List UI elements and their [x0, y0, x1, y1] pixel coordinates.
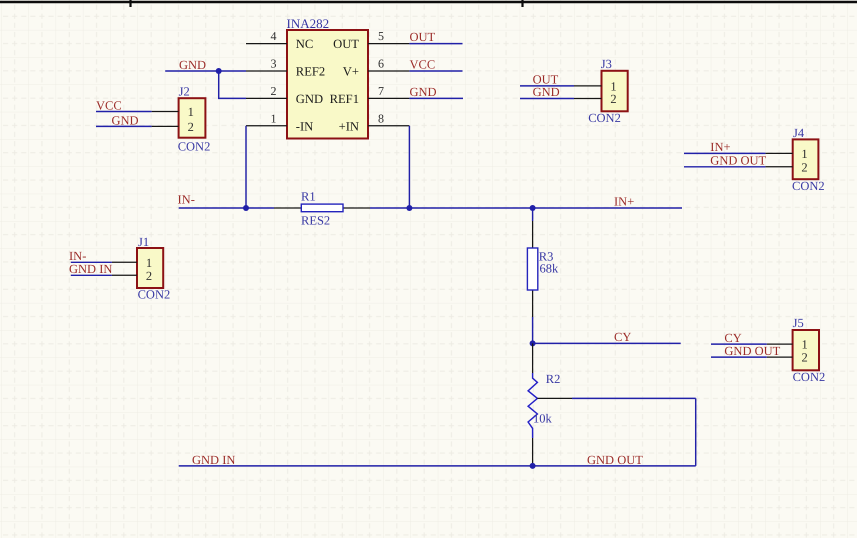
net label IN+ (J4) — [710, 140, 730, 154]
connector J3 CON2 — [602, 71, 628, 112]
svg-text:VCC: VCC — [96, 98, 122, 112]
net label IN+ — [614, 195, 634, 209]
net label GND OUT (J5) — [724, 344, 780, 358]
pin 1 J3 — [574, 85, 602, 87]
connector J1 CON2 — [137, 248, 163, 288]
svg-text:R2: R2 — [546, 372, 561, 386]
net label IN- — [178, 193, 195, 207]
junction on GND wire — [216, 68, 222, 74]
pin 2 J2 — [152, 125, 179, 127]
svg-text:GND: GND — [179, 58, 206, 72]
wire GND OUT to J5 — [711, 356, 767, 358]
junction CY — [530, 340, 536, 346]
value RES2 — [301, 214, 330, 228]
connector J4 CON2 — [793, 139, 819, 179]
svg-text:2: 2 — [271, 84, 277, 98]
net label IN- (J1) — [69, 249, 86, 263]
svg-text:IN-: IN- — [178, 193, 195, 207]
wire CY to J5 — [711, 343, 767, 345]
value CON2 (J3) — [588, 111, 621, 125]
pin 1 J5 — [767, 343, 793, 345]
wire R1 to pin8 column — [370, 207, 533, 209]
svg-text:GND: GND — [410, 85, 437, 99]
wire GND to J2 — [96, 125, 152, 127]
svg-text:J3: J3 — [601, 57, 612, 71]
net label GND IN (bottom) — [192, 453, 235, 467]
label J4 — [793, 126, 805, 140]
net label GND IN (J1) — [69, 262, 112, 276]
wire GND IN to J1 — [71, 274, 112, 276]
wire GND net to pin3 — [165, 70, 246, 72]
label INA282 — [287, 16, 330, 31]
net label GND (J3) — [533, 85, 560, 99]
svg-text:CON2: CON2 — [138, 288, 171, 302]
pin 8 +IN — [368, 111, 409, 125]
svg-text:2: 2 — [146, 269, 152, 283]
svg-text:CY: CY — [614, 330, 631, 344]
wire CY to right — [533, 342, 681, 344]
svg-text:1: 1 — [801, 147, 807, 161]
wire GND bottom horizontal — [179, 465, 696, 467]
pin 2 J1 — [112, 274, 137, 276]
pin 6 V+ — [368, 57, 409, 71]
resistor R1 RES2 — [274, 204, 370, 212]
label J2 — [179, 85, 190, 99]
resistor R3 — [527, 208, 537, 343]
svg-text:OUT: OUT — [410, 30, 436, 44]
label J1 — [138, 235, 149, 249]
pin 1 -IN — [246, 111, 287, 125]
pin 2 J5 — [767, 356, 793, 358]
junction pin1/IN- — [243, 205, 249, 211]
wire right column down — [695, 398, 697, 466]
svg-text:GND IN: GND IN — [192, 453, 235, 467]
svg-text:GND: GND — [112, 113, 139, 127]
pin 2 J4 — [765, 166, 792, 168]
svg-text:VCC: VCC — [410, 58, 436, 72]
value CON2 (J5) — [793, 370, 826, 384]
label R2 — [546, 372, 561, 386]
pin 1 J2 — [152, 111, 179, 113]
pin 2 J3 — [574, 98, 602, 100]
svg-text:+IN: +IN — [339, 119, 359, 133]
junction R3 top — [530, 205, 536, 211]
value CON2 (J4) — [792, 179, 825, 193]
value 68k — [540, 262, 560, 276]
svg-text:GND IN: GND IN — [69, 262, 112, 276]
svg-text:GND OUT: GND OUT — [587, 453, 643, 467]
wire VCC to J2 — [96, 111, 152, 113]
svg-text:1: 1 — [801, 338, 807, 352]
wire R2 tap to right — [572, 397, 696, 399]
svg-text:3: 3 — [271, 57, 277, 71]
svg-text:CON2: CON2 — [178, 139, 211, 153]
net label GND OUT (bottom) — [587, 453, 643, 467]
wire OUT from pin5 — [409, 43, 462, 45]
wire VCC from pin6 — [409, 70, 462, 72]
wire OUT to J3 — [520, 85, 574, 87]
svg-text:CON2: CON2 — [792, 179, 825, 193]
svg-text:OUT: OUT — [333, 37, 359, 51]
svg-text:GND OUT: GND OUT — [724, 344, 780, 358]
svg-text:68k: 68k — [540, 262, 560, 276]
net label GND (pin7) — [410, 85, 437, 99]
svg-text:CON2: CON2 — [793, 370, 826, 384]
pin 4 NC — [246, 29, 287, 43]
svg-text:INA282: INA282 — [287, 16, 330, 31]
svg-text:2: 2 — [801, 351, 807, 365]
net label VCC (J2) — [96, 98, 122, 112]
IC U1 INA282 body — [287, 30, 368, 139]
wire pin8 down — [408, 126, 410, 208]
wire IN- horizontal — [179, 207, 274, 209]
label J3 — [601, 57, 612, 71]
svg-text:1: 1 — [271, 111, 277, 125]
pin 2 GND — [246, 84, 287, 98]
svg-text:V+: V+ — [343, 65, 359, 79]
pin 1 J4 — [765, 152, 792, 154]
wire GND from pin7 — [409, 97, 463, 99]
svg-text:GND OUT: GND OUT — [710, 153, 766, 167]
wire IN- to J1 — [71, 261, 112, 263]
svg-text:REF2: REF2 — [296, 65, 325, 79]
svg-text:4: 4 — [271, 29, 277, 43]
svg-text:NC: NC — [296, 37, 314, 51]
svg-text:GND: GND — [533, 85, 560, 99]
svg-text:IN-: IN- — [69, 249, 86, 263]
connector J2 CON2 — [179, 98, 206, 138]
svg-text:CON2: CON2 — [588, 111, 621, 125]
value 10k — [533, 412, 553, 426]
svg-text:-IN: -IN — [296, 119, 313, 133]
svg-text:J4: J4 — [793, 126, 805, 140]
svg-text:RES2: RES2 — [301, 214, 330, 228]
svg-text:J2: J2 — [179, 85, 190, 99]
label R1 — [301, 190, 316, 204]
svg-text:2: 2 — [188, 120, 194, 134]
pin 1 J1 — [112, 261, 137, 263]
label J5 — [793, 316, 804, 330]
svg-text:1: 1 — [146, 256, 152, 270]
svg-text:2: 2 — [801, 160, 807, 174]
pin 5 OUT — [368, 29, 409, 43]
svg-text:IN+: IN+ — [710, 140, 730, 154]
junction R2 bottom — [530, 463, 536, 469]
svg-text:J5: J5 — [793, 316, 804, 330]
net label GND (J2) — [112, 113, 139, 127]
svg-text:1: 1 — [188, 105, 194, 119]
svg-text:R1: R1 — [301, 190, 316, 204]
net label GND OUT (J4) — [710, 153, 766, 167]
wire pin1 down to IN- net — [245, 126, 247, 208]
svg-text:GND: GND — [296, 92, 323, 106]
net label OUT (pin5) — [410, 30, 436, 44]
svg-text:REF1: REF1 — [330, 92, 359, 106]
wire GND branch down to pin2 — [219, 71, 246, 98]
net label CY — [614, 330, 631, 344]
wire IN+ to J4 — [684, 152, 765, 154]
value CON2 (J2) — [178, 139, 211, 153]
junction pin8/IN+ — [406, 205, 412, 211]
connector J5 CON2 — [793, 330, 819, 370]
net label GND (pin3) — [179, 58, 206, 72]
value CON2 (J1) — [138, 288, 171, 302]
svg-text:5: 5 — [378, 29, 384, 43]
net label OUT (J3) — [533, 73, 559, 87]
net label CY (J5) — [724, 331, 741, 345]
svg-text:6: 6 — [378, 57, 384, 71]
wire IN+ to right — [533, 207, 682, 209]
label R3 — [539, 250, 554, 264]
svg-text:CY: CY — [724, 331, 741, 345]
wire GND OUT to J4 — [684, 166, 765, 168]
svg-text:7: 7 — [378, 84, 384, 98]
svg-text:2: 2 — [610, 92, 616, 106]
svg-text:J1: J1 — [138, 235, 149, 249]
resistor R2 potentiometer — [528, 343, 572, 466]
svg-text:IN+: IN+ — [614, 195, 634, 209]
svg-text:10k: 10k — [533, 412, 553, 426]
svg-text:8: 8 — [378, 111, 384, 125]
net label VCC (pin6) — [410, 58, 436, 72]
pin 7 REF1 — [368, 84, 409, 98]
wire GND to J3 — [520, 98, 574, 100]
pin 3 REF2 — [246, 57, 287, 71]
